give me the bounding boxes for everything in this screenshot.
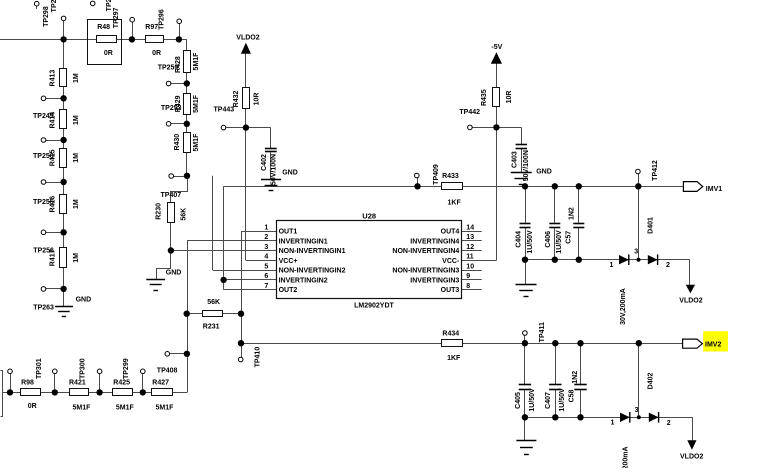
svg-text:6: 6 (264, 273, 268, 280)
svg-text:TP297: TP297 (113, 7, 120, 28)
svg-text:56K: 56K (207, 299, 220, 306)
svg-text:VCC+: VCC+ (279, 258, 298, 265)
svg-text:C403: C403 (511, 151, 518, 168)
svg-text:TP299: TP299 (123, 358, 130, 379)
svg-text:TP411: TP411 (539, 322, 546, 342)
svg-text:11: 11 (466, 254, 474, 261)
svg-text:R429: R429 (175, 95, 182, 112)
svg-text:INVERTINGIN3: INVERTINGIN3 (410, 277, 459, 284)
svg-text:R421: R421 (69, 379, 86, 386)
svg-text:1M: 1M (73, 253, 80, 263)
svg-text:10R: 10R (254, 93, 261, 106)
svg-text:IMV2: IMV2 (705, 341, 721, 348)
svg-text:0R: 0R (104, 50, 113, 57)
svg-text:5M1F: 5M1F (156, 404, 175, 411)
svg-text:NON-INVERTINGIN3: NON-INVERTINGIN3 (392, 268, 459, 275)
svg-text:OUT4: OUT4 (441, 229, 460, 236)
svg-text:1N2: 1N2 (569, 207, 576, 220)
svg-text:C58: C58 (568, 389, 575, 402)
svg-text:C57: C57 (566, 231, 573, 244)
svg-text:TP408: TP408 (157, 368, 178, 375)
svg-text:TP301: TP301 (36, 358, 43, 379)
svg-text:30V,200mA: 30V,200mA (620, 288, 627, 325)
svg-text:TP300: TP300 (80, 358, 87, 379)
svg-text:TP407: TP407 (161, 192, 182, 199)
svg-text:R413: R413 (49, 70, 56, 87)
svg-text:R98: R98 (21, 379, 34, 386)
svg-text:2: 2 (666, 262, 670, 269)
svg-text:GND: GND (166, 270, 182, 277)
svg-text:C405: C405 (515, 392, 522, 409)
svg-text:1U/50V: 1U/50V (559, 388, 566, 412)
svg-text:1: 1 (610, 262, 614, 269)
svg-text:VLDO2: VLDO2 (679, 297, 702, 304)
svg-text:7: 7 (264, 283, 268, 290)
svg-text:1U/50V: 1U/50V (529, 388, 536, 412)
svg-text:D401: D401 (648, 217, 655, 234)
svg-text:LM2902YDT: LM2902YDT (354, 303, 394, 310)
svg-text:TP263: TP263 (33, 305, 54, 312)
svg-text:12: 12 (466, 244, 474, 251)
svg-text:TP266: TP266 (51, 0, 58, 12)
svg-text:GND: GND (76, 296, 92, 303)
svg-text:1KF: 1KF (448, 200, 462, 207)
svg-text:0R: 0R (152, 50, 161, 57)
svg-text:1KF: 1KF (447, 355, 461, 362)
svg-text:4: 4 (264, 254, 268, 261)
svg-text:OUT1: OUT1 (279, 229, 298, 236)
svg-text:TP412: TP412 (652, 160, 659, 181)
svg-text:R428: R428 (175, 56, 182, 73)
svg-text:NON-INVERTINGIN2: NON-INVERTINGIN2 (279, 268, 346, 275)
svg-text:5: 5 (264, 264, 268, 271)
svg-text:1: 1 (611, 420, 615, 427)
svg-text:OUT3: OUT3 (441, 287, 460, 294)
svg-text:NON-INVERTINGIN4: NON-INVERTINGIN4 (392, 248, 459, 255)
svg-text:10: 10 (466, 264, 474, 271)
svg-text:R435: R435 (481, 89, 488, 106)
svg-text:INVERTINGIN1: INVERTINGIN1 (279, 238, 328, 245)
svg-text:OUT2: OUT2 (279, 287, 298, 294)
svg-text:R48: R48 (97, 24, 110, 31)
svg-text:R417: R417 (49, 249, 56, 266)
svg-text:5M1F: 5M1F (116, 404, 135, 411)
svg-text:50V/100N: 50V/100N (523, 150, 530, 181)
svg-text:5M1F: 5M1F (193, 52, 200, 71)
svg-text:R434: R434 (442, 330, 459, 337)
svg-text:5M1F: 5M1F (193, 94, 200, 113)
svg-text:3: 3 (635, 407, 639, 414)
svg-text:TP409: TP409 (433, 164, 440, 185)
svg-text:R231: R231 (203, 323, 220, 330)
svg-text:TP443: TP443 (214, 107, 235, 114)
svg-text:-5V: -5V (491, 44, 502, 51)
svg-text:8: 8 (466, 283, 470, 290)
svg-text:INVERTINGIN4: INVERTINGIN4 (410, 238, 459, 245)
svg-text:TP410: TP410 (255, 347, 262, 368)
svg-text:NON-INVERTINGIN1: NON-INVERTINGIN1 (279, 248, 346, 255)
svg-text:10R: 10R (506, 91, 513, 104)
svg-text:2: 2 (667, 420, 671, 427)
svg-text:IMV1: IMV1 (706, 186, 722, 193)
svg-text:1U/50V: 1U/50V (556, 230, 563, 254)
svg-text:2: 2 (264, 234, 268, 241)
svg-text:R415: R415 (49, 149, 56, 166)
svg-text:VLDO2: VLDO2 (680, 454, 703, 461)
svg-text:TP298: TP298 (43, 6, 50, 27)
svg-text:C402: C402 (261, 154, 268, 171)
svg-text:5M1F: 5M1F (193, 133, 200, 152)
svg-text:R427: R427 (152, 379, 169, 386)
svg-text:D402: D402 (648, 373, 655, 390)
svg-text:30V,200mA: 30V,200mA (623, 446, 630, 468)
svg-text:56K: 56K (180, 208, 187, 221)
svg-text:1M: 1M (73, 73, 80, 83)
svg-text:R433: R433 (442, 173, 459, 180)
svg-text:GND: GND (536, 169, 552, 176)
svg-text:C407: C407 (545, 392, 552, 409)
svg-text:TP296: TP296 (159, 9, 166, 30)
svg-text:R230: R230 (156, 203, 163, 220)
svg-text:50V/100N: 50V/100N (271, 154, 278, 185)
svg-text:R414: R414 (49, 112, 56, 129)
svg-text:R430: R430 (174, 134, 181, 151)
svg-text:R425: R425 (113, 379, 130, 386)
svg-text:R432: R432 (233, 91, 240, 108)
svg-text:1M: 1M (73, 199, 80, 209)
svg-text:INVERTINGIN2: INVERTINGIN2 (279, 277, 328, 284)
svg-text:VCC-: VCC- (442, 258, 460, 265)
svg-text:3: 3 (634, 249, 638, 256)
svg-text:R416: R416 (49, 196, 56, 213)
svg-text:VLDO2: VLDO2 (236, 34, 259, 41)
svg-text:13: 13 (466, 234, 474, 241)
svg-text:C404: C404 (515, 231, 522, 248)
svg-text:0R: 0R (28, 403, 37, 410)
svg-text:1N2: 1N2 (572, 371, 579, 384)
svg-text:1U/50V: 1U/50V (527, 230, 534, 254)
svg-text:3: 3 (264, 244, 268, 251)
svg-text:C406: C406 (545, 231, 552, 248)
svg-text:1M: 1M (73, 115, 80, 125)
svg-text:5M1F: 5M1F (73, 404, 92, 411)
svg-text:GND: GND (282, 170, 298, 177)
svg-text:14: 14 (466, 225, 474, 232)
svg-text:TP442: TP442 (459, 109, 480, 116)
svg-text:U28: U28 (362, 212, 376, 221)
svg-text:9: 9 (466, 273, 470, 280)
svg-text:R97: R97 (145, 24, 158, 31)
svg-text:1M: 1M (73, 153, 80, 163)
svg-text:1: 1 (264, 225, 268, 232)
